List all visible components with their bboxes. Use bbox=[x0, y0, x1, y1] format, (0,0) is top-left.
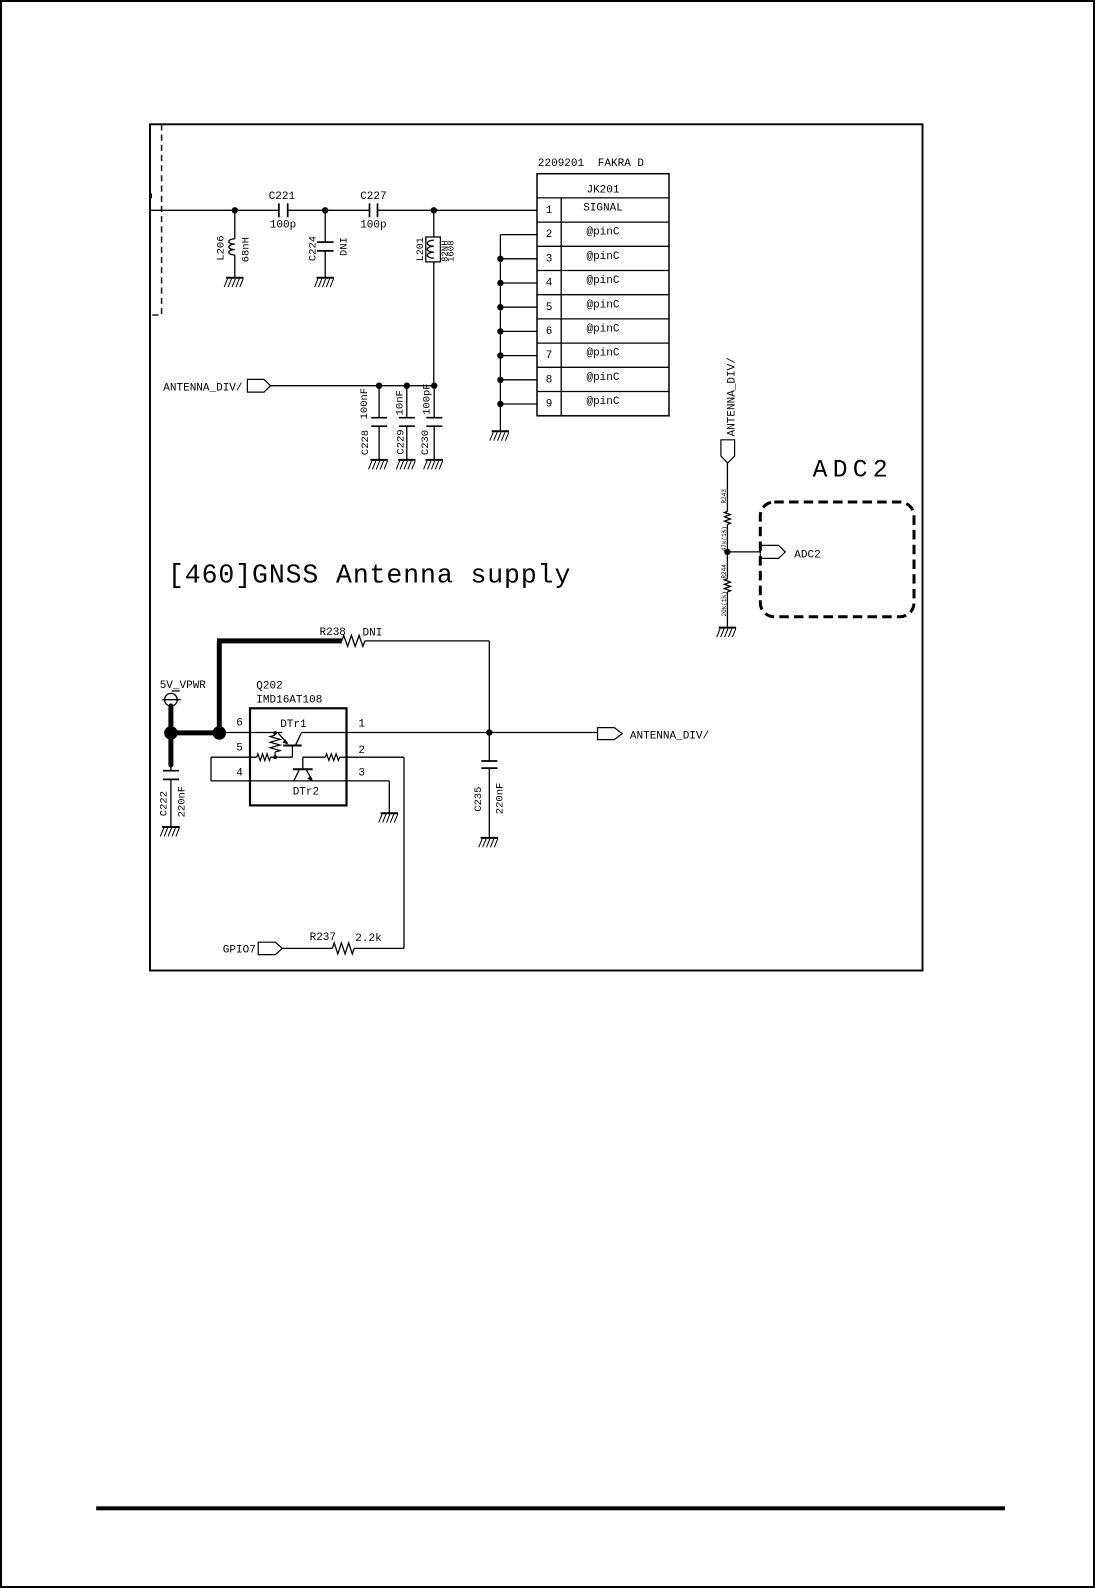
svg-text:DNI: DNI bbox=[363, 628, 383, 640]
svg-text:5: 5 bbox=[236, 742, 243, 754]
svg-text:2: 2 bbox=[546, 229, 553, 241]
wire collector-emitter line pins 4-3 bbox=[250, 780, 347, 782]
node junction C228 bbox=[376, 383, 382, 389]
svg-text:@pinC: @pinC bbox=[586, 324, 619, 336]
svg-text:R237: R237 bbox=[310, 932, 336, 944]
wire R244 to ground bbox=[726, 592, 728, 628]
pin number 1 bbox=[358, 718, 365, 730]
pin number 3 bbox=[358, 767, 365, 779]
svg-text:R238: R238 bbox=[320, 627, 346, 639]
node ADC2 flag bbox=[760, 545, 820, 561]
svg-text:C235: C235 bbox=[473, 787, 485, 812]
ground for C229 bbox=[396, 460, 415, 469]
svg-text:10nF: 10nF bbox=[395, 390, 407, 415]
svg-text:R243: R243 bbox=[721, 489, 728, 504]
power symbol 5V_VPWR bbox=[160, 680, 207, 706]
capacitor C229 10nF bbox=[395, 386, 415, 460]
capacitor C222 220nF bbox=[159, 765, 189, 827]
svg-text:C222: C222 bbox=[159, 791, 171, 816]
wire pin7 stub bbox=[497, 352, 537, 358]
ground for C235 bbox=[479, 838, 498, 847]
node junction at L201 bbox=[431, 207, 437, 213]
svg-text:DTr1: DTr1 bbox=[280, 719, 307, 731]
wire from flag to R243 bbox=[726, 463, 728, 511]
wire main RF net y=210 segment 3 bbox=[378, 209, 538, 211]
wire thick 5V vertical bbox=[168, 706, 173, 765]
svg-text:100nF: 100nF bbox=[359, 388, 371, 420]
transistor array Q202 IMD16AT108 box bbox=[250, 680, 347, 805]
resistor R237 2.2k bbox=[310, 932, 383, 954]
pin 1 SIGNAL row bbox=[546, 203, 623, 218]
pin 2 @pinC row bbox=[546, 227, 620, 242]
capacitor C227 bbox=[360, 191, 386, 232]
wire pin2 outside bbox=[347, 757, 405, 948]
svg-text:@pinC: @pinC bbox=[586, 299, 619, 311]
svg-text:R244: R244 bbox=[721, 564, 728, 579]
node ANTENNA_DIV/ flag down bbox=[721, 357, 739, 463]
capacitor C228 100nF bbox=[359, 386, 387, 460]
resistor R243 47k(1%) bbox=[721, 489, 731, 552]
svg-text:SIGNAL: SIGNAL bbox=[583, 203, 623, 215]
node GPIO7 flag bbox=[223, 942, 282, 956]
pin number 4 bbox=[236, 767, 243, 779]
wire main RF net y=210 segment 2 bbox=[288, 209, 370, 211]
svg-text:@pinC: @pinC bbox=[586, 275, 619, 287]
svg-text:DNI: DNI bbox=[338, 237, 350, 256]
svg-text:2.2k: 2.2k bbox=[355, 933, 382, 945]
wire GPIO7 to R237 bbox=[282, 947, 332, 949]
capacitor C221 bbox=[269, 191, 297, 232]
dashed boundary line top-left bbox=[151, 124, 162, 315]
wire pin9 stub bbox=[497, 401, 537, 407]
ground for C228 bbox=[369, 460, 388, 469]
connector JK201 table frame bbox=[537, 174, 669, 416]
svg-text:ADC2: ADC2 bbox=[794, 550, 820, 562]
svg-text:C230: C230 bbox=[420, 430, 432, 455]
pin number 6 bbox=[236, 717, 243, 729]
node thick junction A bbox=[164, 726, 178, 740]
wire pin4 bbox=[211, 780, 250, 782]
svg-text:@pinC: @pinC bbox=[586, 396, 619, 408]
ground for R244 bbox=[717, 628, 736, 637]
pin 8 @pinC row bbox=[546, 372, 620, 387]
pin 6 @pinC row bbox=[546, 324, 620, 339]
svg-text:3: 3 bbox=[358, 767, 365, 779]
svg-text:GPIO7: GPIO7 bbox=[223, 944, 256, 956]
label ADC2 title bbox=[813, 458, 893, 485]
svg-text:L201: L201 bbox=[416, 237, 427, 261]
wire R238 to pin1 net bbox=[365, 641, 490, 733]
svg-text:@pinC: @pinC bbox=[586, 251, 619, 263]
pin 4 @pinC row bbox=[546, 275, 620, 290]
wire pin3 stub bbox=[497, 256, 537, 262]
svg-text:2209201: 2209201 bbox=[538, 158, 585, 170]
resistor R238 DNI bbox=[320, 627, 383, 646]
wire R237 to pin2 net bbox=[354, 947, 404, 949]
svg-text:1608: 1608 bbox=[447, 240, 457, 262]
wire pin5 with series resistor bbox=[211, 754, 292, 761]
svg-text:4: 4 bbox=[236, 767, 243, 779]
svg-text:C221: C221 bbox=[269, 191, 296, 203]
svg-text:ANTENNA_DIV/: ANTENNA_DIV/ bbox=[163, 382, 242, 394]
svg-text:8: 8 bbox=[546, 374, 553, 386]
svg-text:2: 2 bbox=[358, 745, 365, 757]
svg-text:5V_VPWR: 5V_VPWR bbox=[160, 680, 207, 692]
wire ground bus vertical bbox=[499, 235, 501, 432]
svg-text:@pinC: @pinC bbox=[586, 348, 619, 360]
wire main RF net y=210 segment 1 bbox=[150, 209, 279, 211]
svg-text:100p: 100p bbox=[270, 220, 296, 232]
pin 7 @pinC row bbox=[546, 348, 620, 363]
svg-text:C227: C227 bbox=[360, 191, 386, 203]
pin number 5 bbox=[236, 742, 243, 754]
svg-text:4: 4 bbox=[546, 278, 553, 290]
svg-text:ANTENNA_DIV/: ANTENNA_DIV/ bbox=[630, 731, 709, 743]
svg-text:6: 6 bbox=[546, 326, 553, 338]
transistor DTr1 (PNP) bbox=[270, 719, 307, 759]
node ANTENNA_DIV/ flag left bbox=[163, 379, 270, 394]
inductor L206 bbox=[215, 210, 252, 277]
wire pin3 to ground bbox=[347, 781, 390, 813]
label 2209201 FAKRA D bbox=[538, 158, 645, 170]
inductor L201 82NH 1608 bbox=[416, 210, 457, 385]
wire DTr2 base to pin2 resistor bbox=[303, 754, 347, 761]
ground for C230 bbox=[424, 460, 443, 469]
svg-text:220nF: 220nF bbox=[495, 783, 507, 815]
pin 9 @pinC row bbox=[546, 396, 620, 411]
label JK201 header bbox=[586, 185, 619, 197]
svg-text:220nF: 220nF bbox=[176, 786, 188, 818]
pin 5 @pinC row bbox=[546, 299, 620, 314]
svg-text:6: 6 bbox=[236, 717, 243, 729]
svg-text:3: 3 bbox=[546, 253, 553, 265]
wire pin4 stub bbox=[497, 280, 537, 286]
svg-text:C229: C229 bbox=[396, 429, 408, 454]
wire R243 to R244 bbox=[726, 524, 728, 578]
svg-text:5: 5 bbox=[546, 302, 553, 314]
wire pin6 stub bbox=[497, 328, 537, 334]
svg-text:[460]GNSS Antenna supply: [460]GNSS Antenna supply bbox=[168, 561, 571, 591]
wire pin1 to ANTENNA_DIV flag bbox=[347, 732, 598, 734]
wire to ADC2 flag bbox=[727, 551, 760, 553]
wire pin5-pin4 link bbox=[210, 757, 212, 781]
ground for pin3 bbox=[379, 813, 398, 822]
ground for JK201 shield bus bbox=[490, 431, 509, 440]
svg-text:@pinC: @pinC bbox=[586, 372, 619, 384]
svg-text:ADC2: ADC2 bbox=[813, 458, 893, 485]
net stub tick on frame bbox=[150, 194, 152, 199]
node junction ADC2 tap bbox=[724, 549, 730, 555]
node junction at C224 bbox=[322, 207, 328, 213]
node ANTENNA_DIV/ flag right bbox=[598, 728, 710, 743]
wire ANTENNA_DIV/ net bbox=[271, 385, 435, 387]
node thick junction B bbox=[213, 726, 227, 740]
capacitor C224 (DNI) bbox=[307, 210, 350, 277]
wire pin1 inside bbox=[301, 732, 346, 734]
svg-text:9: 9 bbox=[546, 399, 553, 411]
transistor DTr2 (NPN) bbox=[293, 757, 319, 798]
svg-text:DTr2: DTr2 bbox=[293, 787, 319, 799]
pin 3 @pinC row bbox=[546, 251, 620, 266]
svg-text:100p: 100p bbox=[360, 220, 386, 232]
svg-text:100pF: 100pF bbox=[422, 383, 434, 415]
svg-text:C224: C224 bbox=[307, 236, 319, 261]
wire pin6 bbox=[219, 732, 282, 734]
schematic sheet frame bbox=[150, 124, 923, 970]
wire thick up to R238 bbox=[217, 641, 342, 733]
wire pin5 stub bbox=[497, 304, 537, 310]
label sheet title [460]GNSS Antenna supply bbox=[168, 561, 571, 591]
svg-text:@pinC: @pinC bbox=[586, 227, 619, 239]
svg-text:1: 1 bbox=[546, 205, 553, 217]
ground for C222 bbox=[160, 827, 179, 836]
footer separator line bbox=[96, 1506, 1005, 1510]
svg-text:IMD16AT108: IMD16AT108 bbox=[256, 695, 322, 707]
wire thick horizontal bbox=[171, 730, 219, 735]
capacitor C230 100pF bbox=[420, 383, 442, 460]
dashed ADC2 block box bbox=[760, 502, 914, 617]
ground for L206 bbox=[224, 278, 243, 287]
node junction C229 bbox=[404, 383, 410, 389]
svg-text:L206: L206 bbox=[215, 235, 227, 260]
wire pin2 stub bbox=[500, 234, 537, 236]
ground for C224 bbox=[315, 278, 334, 287]
pin number 2 bbox=[358, 745, 365, 757]
svg-text:7: 7 bbox=[546, 350, 553, 362]
svg-text:JK201: JK201 bbox=[586, 185, 619, 197]
svg-text:68nH: 68nH bbox=[241, 237, 253, 262]
svg-text:ANTENNA_DIV/: ANTENNA_DIV/ bbox=[727, 357, 739, 436]
svg-text:Q202: Q202 bbox=[256, 680, 282, 692]
node junction at L206 bbox=[232, 207, 238, 213]
capacitor C235 220nF bbox=[473, 733, 507, 838]
wire pin8 stub bbox=[497, 377, 537, 383]
svg-text:C228: C228 bbox=[360, 430, 372, 455]
node junction C235 bbox=[486, 729, 492, 735]
resistor R244 20k(1%) bbox=[721, 564, 731, 617]
node junction C230 bbox=[431, 383, 437, 389]
svg-text:1: 1 bbox=[358, 718, 365, 730]
svg-text:FAKRA D: FAKRA D bbox=[598, 158, 645, 170]
